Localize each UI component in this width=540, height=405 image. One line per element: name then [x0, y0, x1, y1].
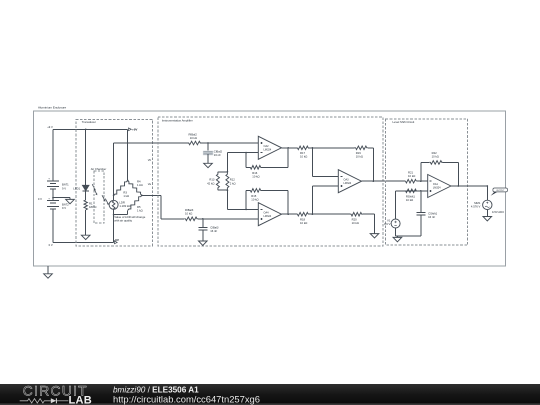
- ground at enclosure bottom: [44, 266, 53, 278]
- wire bridge bottom link: [114, 210, 128, 214]
- svg-text:BAT1: BAT1: [62, 182, 69, 186]
- svg-text:Level Shift Circuit: Level Shift Circuit: [393, 120, 415, 124]
- node OA3 noninverting tap: [312, 213, 314, 215]
- svg-text:R22: R22: [432, 151, 438, 155]
- ground at battery midpoint: [66, 198, 75, 204]
- battery BAT2: [47, 197, 69, 243]
- node top filter tap: [207, 142, 209, 144]
- footer logo CIRCUIT: [23, 383, 88, 398]
- wire OA4 feedback rise: [245, 190, 247, 209]
- node junction +9V rail / LED branch: [85, 128, 87, 130]
- node OA1 noninverting tap: [420, 190, 422, 192]
- label 0 V bottom: [49, 243, 53, 247]
- ground after R20: [370, 234, 379, 238]
- svg-text:Vb: Vb: [148, 158, 152, 162]
- footer credit line: [113, 386, 199, 395]
- op-amp OA2: [258, 136, 281, 159]
- node OA1 inverting tap: [420, 180, 422, 182]
- svg-text:10 kΩ: 10 kΩ: [185, 212, 192, 216]
- resistor R15: [246, 189, 261, 202]
- svg-text:with air quality: with air quality: [114, 219, 132, 223]
- svg-text:R19: R19: [356, 151, 362, 155]
- svg-text:+9V: +9V: [132, 128, 137, 132]
- svg-text:0.9 V: 0.9 V: [384, 222, 391, 226]
- wire Vb from bridge left node: [114, 143, 188, 195]
- resistor R5 (bridge lower-right arm): [128, 195, 143, 212]
- wire LED branch down: [85, 129, 87, 185]
- node OA4 output: [287, 213, 289, 215]
- resistor R22: [421, 151, 443, 164]
- footer logo schematic squiggle: [20, 398, 69, 403]
- svg-text:Instrumentation Amplifier: Instrumentation Amplifier: [162, 119, 193, 123]
- resistor R17: [297, 146, 308, 159]
- svg-text:Transducer: Transducer: [82, 120, 96, 124]
- svg-text:R3: R3: [123, 190, 127, 194]
- wire battery midpoint to ground: [53, 197, 70, 199]
- wire gain pair to OA4 inverting: [227, 190, 258, 209]
- svg-text:Aluminium Enclosure: Aluminium Enclosure: [38, 106, 67, 110]
- svg-text:BAT2: BAT2: [62, 202, 69, 206]
- section box Level Shift Circuit: [386, 119, 468, 245]
- LED light emission arrows: [92, 184, 97, 195]
- footer bar: [0, 384, 540, 405]
- ground on level shift rail: [393, 236, 402, 242]
- svg-text:9 V: 9 V: [62, 206, 66, 210]
- capacitor CShift1: [416, 191, 437, 236]
- wire R22 to OA1 output: [443, 162, 458, 186]
- svg-text:CIBal3: CIBal3: [210, 225, 219, 229]
- svg-text:0 V: 0 V: [38, 197, 42, 201]
- node bottom filter tap: [202, 218, 204, 220]
- svg-text:LM324: LM324: [264, 148, 272, 151]
- resistor R18: [297, 212, 308, 225]
- wire R20 to ground: [363, 214, 375, 233]
- node OA4 feedback tap: [245, 209, 247, 211]
- svg-text:10 kΩ: 10 kΩ: [408, 174, 415, 178]
- node OA2 feedback tap: [245, 152, 247, 154]
- battery BAT1: [47, 177, 69, 198]
- svg-text:0 V: 0 V: [49, 243, 53, 247]
- svg-text:R21: R21: [408, 171, 414, 175]
- LDR incoming light arrows: [102, 195, 109, 205]
- svg-text:10 kΩ: 10 kΩ: [352, 221, 359, 225]
- wire bridge left node to LDR: [113, 195, 115, 200]
- ground below CIBal2: [204, 163, 213, 167]
- svg-text:R16: R16: [252, 171, 258, 175]
- node OA1 output: [457, 185, 459, 187]
- resistor R13: [207, 172, 227, 190]
- resistor R16: [246, 166, 261, 179]
- svg-text:10 kΩ: 10 kΩ: [406, 198, 413, 202]
- svg-text:R18: R18: [300, 217, 306, 221]
- resistor RShift1: [406, 189, 417, 202]
- node OA3 output: [372, 180, 374, 182]
- node gain pair top: [227, 171, 229, 173]
- svg-text:-9V: -9V: [114, 238, 119, 242]
- op-amp OA1: [428, 175, 451, 198]
- voltmeter MM1: [471, 200, 492, 209]
- svg-text:1.182 kΩ: 1.182 kΩ: [119, 204, 130, 208]
- node LDR bottom junction: [113, 214, 115, 216]
- wire up to OA3 noninverting input: [312, 186, 338, 214]
- resistor R19: [354, 146, 368, 159]
- wire R17 to R19: [308, 147, 354, 149]
- net flag -9V: [114, 238, 119, 244]
- svg-text:1 kΩ: 1 kΩ: [137, 208, 143, 212]
- wire R16 to OA2 output: [261, 148, 289, 168]
- footer logo LAB: [69, 395, 93, 405]
- svg-text:+9 V: +9 V: [47, 125, 53, 129]
- node bridge right: [141, 195, 143, 197]
- svg-text:CShift1: CShift1: [428, 211, 437, 215]
- svg-text:10 kΩ: 10 kΩ: [356, 155, 363, 159]
- wire +9V rail from battery to bridge: [53, 128, 128, 130]
- svg-text:10 kΩ: 10 kΩ: [432, 155, 439, 159]
- wire RShift1 to V1: [396, 191, 406, 219]
- svg-text:R20: R20: [352, 217, 358, 221]
- svg-text:R17: R17: [300, 151, 306, 155]
- outer enclosure box (Aluminium Enclosure): [33, 106, 505, 266]
- node OA2 output: [287, 147, 289, 149]
- wire battery top: [52, 129, 54, 180]
- vertical wire gain pair top: [226, 153, 228, 172]
- wire OA1 noninverting row: [406, 190, 428, 192]
- photoresistor LDR: [109, 200, 130, 209]
- net flag OUTPUT: [491, 188, 508, 196]
- voltage source V1: [384, 218, 400, 228]
- svg-text:LM324: LM324: [264, 215, 272, 218]
- wire OA4 output: [282, 213, 298, 215]
- label 0-5V ADC: [492, 210, 504, 214]
- footer url line: [113, 394, 260, 405]
- svg-text:LM324: LM324: [344, 182, 352, 185]
- wire OA3 output to level shift: [362, 180, 406, 182]
- label Vb: [148, 158, 152, 162]
- svg-text:16 nF: 16 nF: [428, 215, 435, 219]
- net flag +9V: [129, 128, 138, 132]
- section box Instrumentation Amplifier: [158, 117, 383, 246]
- wire +9V vertical to bridge top: [127, 129, 129, 180]
- svg-text:R4: R4: [137, 179, 141, 183]
- resistor R20: [350, 212, 362, 225]
- svg-text:OUTPUT: OUTPUT: [496, 190, 505, 192]
- op-amp OA4: [258, 203, 281, 226]
- wire R1 to ground: [85, 210, 87, 235]
- node OA3 inverting tap: [312, 147, 314, 149]
- svg-text:V1: V1: [387, 218, 391, 222]
- svg-text:R5: R5: [137, 205, 141, 209]
- wire feedback rise: [420, 162, 422, 181]
- node bridge top: [127, 180, 129, 182]
- svg-text:RIBal2: RIBal2: [189, 132, 198, 136]
- ground below CIBal3: [199, 241, 208, 245]
- ground below R1: [81, 235, 90, 239]
- svg-text:R13: R13: [209, 178, 215, 182]
- wire LED to R1: [85, 191, 87, 200]
- wire RIBal3 to OA4: [198, 218, 258, 220]
- svg-text:9 V: 9 V: [62, 186, 66, 190]
- wire R19 feedback to OA3 output: [368, 148, 373, 181]
- resistor R3 (bridge upper-left arm): [114, 181, 130, 198]
- wire OA2 output: [282, 147, 298, 149]
- wire LDR bottom to -9V node: [113, 209, 115, 214]
- svg-text:4.576 V: 4.576 V: [471, 205, 481, 209]
- svg-text:Air Chamber: Air Chamber: [91, 167, 107, 171]
- svg-text:+: +: [48, 177, 50, 181]
- svg-text:LED1: LED1: [73, 186, 80, 190]
- svg-text:10 kΩ: 10 kΩ: [190, 136, 197, 140]
- svg-text:10 kΩ: 10 kΩ: [300, 221, 307, 225]
- resistor RIBal3: [184, 208, 198, 221]
- node 0V battery midpoint: [38, 197, 54, 201]
- wire R18 to R20: [308, 213, 350, 215]
- node gain pair bottom: [227, 189, 229, 191]
- wire OA1 output to meter: [451, 185, 487, 187]
- svg-text:R1: R1: [89, 201, 93, 205]
- svg-text:10 kΩ: 10 kΩ: [251, 198, 258, 202]
- svg-text:R15: R15: [251, 194, 257, 198]
- svg-text:16 nF: 16 nF: [214, 153, 221, 157]
- wire Va from bridge right node: [142, 195, 184, 218]
- svg-text:RShift1: RShift1: [406, 194, 415, 198]
- capacitor CIBal3: [198, 219, 219, 233]
- wire OA2 inverting input row: [227, 152, 258, 154]
- LED LED1: [73, 185, 89, 191]
- wire down to OA3 inverting input: [312, 148, 338, 177]
- resistor R21: [406, 171, 417, 183]
- svg-text:1 kΩ: 1 kΩ: [123, 194, 129, 198]
- label Va: [148, 182, 152, 186]
- svg-text:http://circuitlab.com/cc647tn2: http://circuitlab.com/cc647tn257xg6: [113, 394, 260, 405]
- svg-text:R12: R12: [230, 178, 236, 182]
- wire RIBal2 to OA2: [202, 142, 259, 144]
- svg-text:RIBal3: RIBal3: [185, 208, 194, 212]
- capacitor CIBal2 (selected): [203, 143, 223, 157]
- label +9 V battery top: [47, 125, 53, 129]
- wire -9V drop: [113, 215, 115, 243]
- svg-text:10 kΩ: 10 kΩ: [252, 174, 259, 178]
- wire CIBal3 to ground: [202, 230, 204, 241]
- wire R21 to OA1: [416, 180, 427, 182]
- resistor R4 (bridge upper-right arm): [128, 179, 143, 195]
- wire 0V bottom rail: [53, 241, 114, 243]
- wire down to voltmeter: [486, 186, 488, 200]
- wire CIBal2 to ground: [207, 154, 209, 164]
- svg-text:1 kΩ: 1 kΩ: [137, 183, 143, 187]
- annotation LDR note: [114, 215, 145, 223]
- svg-text:180 Ω: 180 Ω: [89, 205, 96, 209]
- wire OA2 feedback drop: [245, 153, 247, 168]
- svg-text:LAB: LAB: [69, 395, 93, 405]
- svg-text:LM324: LM324: [433, 187, 441, 190]
- wire R15 to OA4 output: [261, 190, 289, 214]
- resistor R1: [84, 200, 96, 210]
- op-amp OA3: [338, 170, 361, 193]
- node output corner: [486, 185, 488, 187]
- svg-text:42 kΩ: 42 kΩ: [207, 181, 214, 185]
- resistor R12: [226, 172, 236, 190]
- svg-text:Va: Va: [148, 182, 152, 186]
- node bridge left: [113, 195, 115, 197]
- ground below voltmeter: [483, 210, 492, 221]
- svg-text:10 kΩ: 10 kΩ: [300, 155, 307, 159]
- svg-text:CIBal2: CIBal2: [214, 150, 223, 154]
- section box Air Chamber: [91, 167, 107, 223]
- svg-text:MM1: MM1: [474, 201, 481, 205]
- svg-text:2 kΩ: 2 kΩ: [230, 181, 236, 185]
- svg-text:0-5V ADC: 0-5V ADC: [492, 210, 504, 214]
- wire V1 to bottom rail: [396, 228, 421, 236]
- svg-text:16 nF: 16 nF: [210, 229, 217, 233]
- svg-text:+: +: [48, 197, 50, 201]
- resistor RIBal2: [188, 132, 202, 145]
- svg-text:LDR: LDR: [119, 200, 125, 204]
- section box Transducer: [76, 119, 153, 246]
